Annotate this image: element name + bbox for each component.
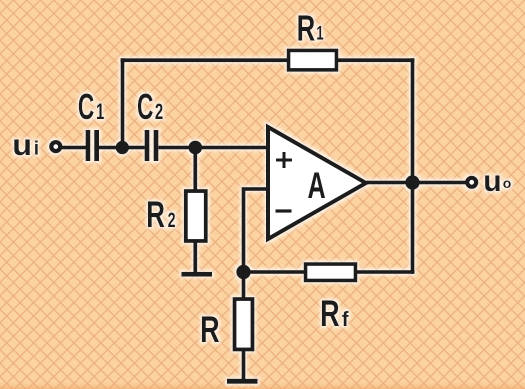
svg-text:2: 2	[155, 99, 163, 124]
wire R to ground	[242, 350, 246, 380]
label C2	[137, 88, 163, 127]
node B junction C2/R2	[188, 141, 202, 155]
wire C1 to node A	[99, 146, 145, 150]
wire top rail left segment	[121, 58, 290, 62]
svg-text:2: 2	[168, 208, 176, 231]
label Rf	[320, 291, 349, 333]
wire node A up to top rail	[121, 58, 125, 147]
ground for R	[227, 379, 258, 384]
wire Rf to right rail	[354, 270, 414, 274]
resistor R	[235, 299, 253, 350]
label R1	[297, 7, 324, 49]
label C1	[78, 88, 104, 127]
resistor R1	[289, 50, 337, 70]
wire C2 to op-amp + input	[158, 146, 268, 150]
op-amp inverting - marker	[276, 209, 292, 212]
ground for R2	[182, 272, 213, 277]
resistor R2	[186, 191, 206, 241]
label u_i	[12, 128, 39, 162]
svg-text:u: u	[483, 165, 501, 198]
svg-text:1: 1	[316, 22, 323, 44]
wire op-amp output	[366, 181, 467, 185]
wire R2 to ground	[193, 241, 197, 272]
svg-text:u: u	[12, 128, 32, 162]
wire node C to Rf	[244, 270, 308, 274]
node D output junction	[405, 175, 419, 189]
wire top rail right segment	[335, 58, 414, 62]
wire node B down to R2	[193, 148, 197, 194]
wire inverting input to node C	[244, 189, 269, 272]
node A junction C1/C2/feedback	[116, 141, 129, 154]
svg-text:R: R	[200, 308, 219, 350]
svg-text:R: R	[297, 7, 316, 49]
svg-text:o: o	[503, 175, 512, 191]
wire right rail output node down to Rf rail	[411, 183, 415, 274]
svg-text:i: i	[34, 139, 39, 160]
resistor Rf	[306, 264, 356, 281]
capacitor C2	[145, 130, 159, 161]
output terminal u_o	[467, 178, 476, 187]
node C junction R/Rf/inverting	[236, 265, 250, 279]
capacitor C1	[86, 130, 99, 161]
op-amp A triangle	[268, 127, 366, 239]
wire right rail down to output node	[411, 58, 415, 182]
svg-text:C: C	[137, 88, 153, 127]
svg-text:A: A	[308, 164, 326, 206]
wire input lead	[61, 146, 86, 150]
label R2	[146, 193, 175, 235]
wire node C down to R	[242, 272, 246, 300]
svg-text:R: R	[146, 193, 165, 235]
svg-text:R: R	[320, 291, 339, 333]
svg-text:C: C	[78, 88, 94, 127]
label u_o	[483, 165, 511, 198]
input terminal u_i	[51, 142, 60, 151]
svg-text:1: 1	[96, 99, 104, 124]
op-amp noninverting + marker	[276, 152, 292, 168]
svg-text:f: f	[342, 308, 349, 331]
